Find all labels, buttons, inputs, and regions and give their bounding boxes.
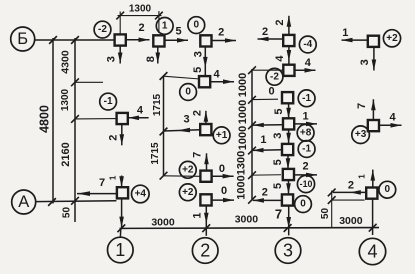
svg-text:7: 7 — [356, 103, 368, 109]
axis A leader line — [35, 200, 116, 203]
ext line above node R1 — [119, 12, 121, 35]
axis B circle (row Б) — [11, 27, 35, 51]
node D2 value circle +3 — [352, 126, 370, 144]
svg-text:Б: Б — [17, 30, 28, 48]
svg-text:1: 1 — [342, 27, 348, 39]
svg-text:5: 5 — [192, 67, 204, 73]
node C1 arrow up — [288, 16, 290, 34]
svg-text:7: 7 — [99, 177, 105, 189]
axis 1 stub — [119, 228, 121, 236]
svg-text:4300: 4300 — [60, 50, 72, 74]
node B3 arrow left — [164, 130, 201, 131]
tick 1715 bottom — [160, 172, 168, 180]
svg-text:1: 1 — [192, 213, 204, 219]
node R2 square — [153, 35, 164, 46]
svg-text:50: 50 — [61, 207, 72, 219]
axis 4 circle — [359, 238, 385, 264]
svg-text:2: 2 — [348, 179, 354, 191]
tick b2 — [202, 224, 210, 232]
svg-text:2: 2 — [192, 110, 204, 116]
svg-text:1: 1 — [115, 240, 125, 260]
node C7 value circle 0 — [295, 196, 312, 213]
svg-text:1: 1 — [260, 134, 266, 146]
node C1 square — [283, 35, 294, 46]
node D3 arrow left — [333, 191, 367, 193]
node C6 arrow right — [294, 174, 317, 176]
svg-text:4: 4 — [305, 57, 312, 69]
svg-text:4: 4 — [389, 112, 396, 124]
svg-text:1: 1 — [108, 175, 117, 180]
node D2 square — [368, 120, 379, 131]
node B2 square — [199, 76, 210, 87]
svg-text:1000: 1000 — [237, 100, 249, 124]
tick c 151 — [248, 147, 256, 155]
node C2 value circle -2 — [266, 68, 283, 85]
node D3 square — [366, 188, 377, 199]
tick c 200 — [248, 196, 256, 204]
tick 1715 mid — [160, 128, 168, 136]
node R2 value circle 1 — [156, 18, 173, 35]
svg-text:+2: +2 — [386, 33, 398, 44]
node C5 value circle -1 — [298, 141, 315, 158]
dim line 1300 top — [118, 15, 162, 17]
node D1 arrow left — [342, 39, 368, 41]
node R1 value circle -2 — [94, 21, 111, 38]
svg-text:5: 5 — [273, 109, 285, 115]
axis B leader line — [35, 39, 115, 41]
node B1 square — [200, 35, 211, 46]
svg-text:+4: +4 — [135, 189, 147, 200]
svg-text:3: 3 — [359, 59, 371, 65]
node R1 arrow down — [119, 46, 121, 64]
svg-text:1300: 1300 — [60, 88, 71, 111]
svg-text:+1: +1 — [216, 130, 228, 141]
node B5 value circle +2 — [179, 184, 196, 201]
svg-text:-1: -1 — [104, 96, 113, 107]
node B1 arrow right — [212, 40, 236, 42]
tick 4800 bottom — [48, 198, 56, 206]
tick 4800 top — [49, 36, 57, 44]
svg-text:0: 0 — [219, 163, 225, 175]
level line 50 right — [332, 199, 365, 201]
node B4 arrow up — [206, 153, 208, 170]
arrow C5-C6 — [287, 155, 289, 169]
tick 1715 top — [160, 72, 168, 80]
level leader y100 line — [252, 98, 278, 100]
arrow B1-B2 — [204, 47, 206, 77]
node D2 arrow up — [372, 99, 374, 120]
node B3 value circle +1 — [213, 127, 230, 144]
node K2 arrow right — [128, 117, 149, 119]
svg-text:4: 4 — [213, 68, 220, 80]
svg-text:2: 2 — [108, 135, 120, 141]
node C3 square — [282, 92, 293, 103]
level leader y119 — [76, 118, 117, 120]
tick left v2 top — [71, 36, 79, 44]
tick c 70 — [248, 66, 256, 74]
svg-text:3000: 3000 — [151, 216, 175, 228]
svg-text:0: 0 — [194, 20, 200, 31]
tick c 100 — [248, 96, 256, 104]
tick 1300 left — [116, 12, 124, 20]
svg-text:-1: -1 — [302, 144, 311, 155]
axis 1 circle — [108, 237, 134, 263]
svg-text:7: 7 — [275, 207, 282, 222]
tick 50r a — [328, 189, 336, 197]
svg-text:1: 1 — [162, 20, 168, 31]
level leader y175 — [252, 174, 281, 176]
svg-text:1300: 1300 — [236, 151, 248, 175]
level leader y70 — [252, 69, 283, 71]
svg-text:50: 50 — [320, 208, 331, 220]
svg-text:2: 2 — [303, 161, 309, 173]
node B5 arrow right — [212, 199, 234, 201]
node C7 arrow left — [253, 199, 282, 201]
node K2 square — [117, 113, 128, 124]
svg-text:-1: -1 — [302, 93, 311, 104]
node C5 square — [282, 144, 293, 155]
svg-text:2: 2 — [262, 187, 268, 199]
svg-text:1000: 1000 — [237, 126, 249, 150]
svg-text:5: 5 — [175, 25, 181, 37]
node D3 arrow up — [372, 170, 374, 188]
svg-text:-10: -10 — [300, 179, 313, 189]
svg-text:3000: 3000 — [235, 214, 259, 226]
svg-text:-2: -2 — [98, 24, 107, 35]
node C7 arrow down — [288, 206, 290, 236]
node C2 arrow right — [295, 69, 316, 71]
node K3 square — [117, 187, 128, 198]
node K3 entry arrow — [121, 176, 123, 188]
level leader to node B4 — [164, 175, 201, 178]
node C7 square — [282, 194, 293, 205]
svg-text:2: 2 — [274, 20, 286, 26]
svg-text:+3: +3 — [355, 129, 367, 140]
node C4 arrow right — [294, 123, 317, 125]
tick b1 — [117, 224, 125, 232]
svg-text:1000: 1000 — [236, 175, 248, 199]
svg-text:1: 1 — [357, 174, 366, 179]
node D1 square — [368, 36, 379, 47]
node C6 value circle -10 — [297, 175, 314, 192]
node C4 square — [283, 118, 294, 129]
svg-text:-2: -2 — [270, 71, 279, 82]
node K2 arrow down — [121, 124, 123, 145]
tick c 125 — [248, 121, 256, 129]
svg-text:0: 0 — [221, 185, 227, 197]
node R1 square — [115, 34, 126, 45]
svg-text:0: 0 — [185, 87, 191, 98]
node B3 square — [200, 124, 211, 135]
level leader to node B2 — [164, 76, 201, 79]
node K3 arrow left — [77, 193, 117, 195]
node C4 value circle +8 — [297, 124, 314, 141]
svg-text:5: 5 — [272, 159, 284, 165]
tick left v2 201 — [71, 197, 79, 205]
node D3 value circle 0 — [379, 181, 396, 198]
svg-text:5: 5 — [272, 183, 284, 189]
node C2 square — [283, 65, 294, 76]
dim line 4800 vertical — [52, 38, 54, 204]
node K3 value circle +4 — [132, 185, 150, 203]
node K2 value circle -1 — [100, 93, 117, 110]
level leader y82 — [76, 81, 103, 83]
svg-text:1000: 1000 — [237, 73, 249, 97]
tick left v2 82 — [71, 78, 79, 86]
node R1 arrow right — [126, 39, 150, 41]
svg-text:3: 3 — [272, 133, 284, 139]
svg-text:+8: +8 — [300, 127, 312, 138]
node C1 arrow left — [258, 38, 284, 40]
node C6 square — [283, 169, 294, 180]
svg-text:3: 3 — [105, 56, 117, 62]
node B4 value circle +2 — [179, 161, 196, 178]
dim line 3000 bottom — [120, 227, 380, 230]
svg-text:1715: 1715 — [150, 142, 161, 165]
tick b4 — [369, 224, 377, 232]
svg-text:А: А — [18, 193, 29, 211]
svg-text:4: 4 — [367, 242, 377, 262]
svg-text:8: 8 — [145, 56, 157, 62]
node B5 square — [200, 194, 211, 205]
axis 3 circle — [275, 238, 301, 264]
svg-text:3: 3 — [184, 114, 190, 126]
svg-text:4: 4 — [274, 55, 286, 62]
svg-text:2160: 2160 — [60, 142, 72, 166]
node D1 value circle +2 — [383, 30, 400, 47]
svg-text:2: 2 — [139, 22, 145, 34]
svg-text:3: 3 — [283, 241, 293, 261]
node C5 arrow left — [253, 149, 282, 152]
tick c 175 — [248, 171, 256, 179]
node R2 arrow down — [157, 47, 159, 64]
arrow C6-C7 — [288, 180, 290, 194]
tick 1300 right — [155, 12, 163, 20]
svg-text:0: 0 — [268, 85, 274, 97]
node K3 arrow down — [121, 199, 123, 228]
svg-text:-4: -4 — [303, 39, 312, 50]
node B1 value circle 0 — [188, 17, 205, 34]
arrow C3-C4 — [288, 103, 290, 119]
svg-text:2: 2 — [218, 27, 224, 39]
node B5 arrow down — [205, 206, 207, 236]
svg-text:1300: 1300 — [129, 3, 152, 14]
node B4 arrow right — [212, 175, 234, 177]
node C1 value circle -4 — [299, 36, 316, 53]
node D1 arrow down — [373, 47, 375, 70]
arrow C4-C5 — [288, 130, 290, 144]
svg-text:4: 4 — [137, 105, 144, 117]
node R2 arrow right — [165, 39, 188, 41]
svg-text:4800: 4800 — [38, 105, 52, 133]
node B4 square — [200, 171, 211, 182]
svg-text:0: 0 — [300, 199, 306, 210]
ext line above node R2 — [158, 11, 160, 33]
node C3 value circle -1 — [298, 90, 315, 107]
svg-text:+2: +2 — [182, 164, 194, 175]
dim line 50 right vertical — [331, 191, 333, 229]
node B2 value circle 0 — [180, 84, 197, 101]
tick 50r b — [328, 196, 336, 204]
svg-text:1: 1 — [303, 111, 309, 123]
node D3 axis line down — [372, 199, 374, 235]
node B3 arrow up — [205, 111, 207, 124]
dim line 4300/1300/2160 vertical — [74, 38, 76, 222]
svg-text:0: 0 — [385, 184, 391, 195]
svg-text:7: 7 — [192, 152, 204, 158]
tick b3 — [284, 224, 292, 232]
axis A circle — [12, 190, 36, 214]
node B2 arrow right — [210, 81, 234, 83]
svg-text:1715: 1715 — [152, 93, 163, 116]
node D2 arrow right — [380, 124, 402, 126]
svg-text:2: 2 — [262, 26, 268, 38]
svg-text:2: 2 — [200, 241, 210, 261]
arrow C1-C2 — [288, 46, 290, 65]
tick left v2 119 — [71, 115, 79, 123]
dim line 1715 vertical — [163, 76, 165, 177]
svg-text:+2: +2 — [182, 187, 194, 198]
axis 2 circle — [192, 238, 218, 264]
svg-text:3000: 3000 — [339, 215, 363, 227]
node C4 arrow left — [253, 124, 282, 126]
svg-text:3: 3 — [192, 51, 204, 57]
dim line 1000s vertical — [251, 69, 253, 201]
